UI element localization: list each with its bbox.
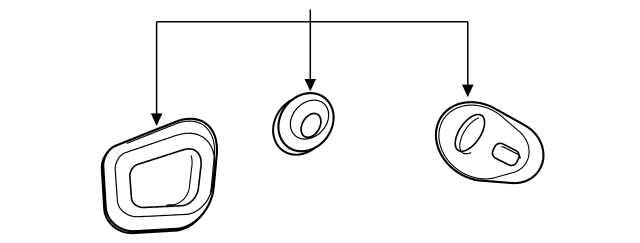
grommet C (right) lower face: [436, 102, 544, 183]
grommet A hole: [130, 149, 201, 208]
grommet C small hole: [492, 143, 519, 165]
arrowhead left: [151, 113, 163, 126]
leader horizontal bar: [157, 21, 468, 23]
grommet A hole chamfer: [166, 155, 192, 205]
grommet C big hole depth arc: [460, 118, 479, 154]
grommet A lip line: [127, 121, 215, 193]
grommet A (left) lower face: [102, 121, 216, 233]
leader line left: [156, 22, 158, 114]
grommet A boss edge: [115, 133, 215, 217]
leader line center: [309, 22, 311, 80]
grommet B (center) lower face: [273, 97, 328, 155]
leader stub: [309, 10, 311, 22]
leader line right: [467, 22, 469, 85]
grommet B top face: [278, 93, 333, 151]
arrowhead center: [305, 79, 317, 91]
grommet B ring inner edge: [290, 100, 328, 139]
grommet A top face: [103, 119, 217, 231]
grommet C top face line: [439, 105, 529, 179]
grommet B side seam: [287, 142, 290, 150]
arrowhead right: [462, 85, 474, 98]
grommet C small hole depth line: [501, 147, 520, 159]
grommet B hole: [301, 114, 321, 138]
grommet C big hole: [455, 115, 484, 152]
